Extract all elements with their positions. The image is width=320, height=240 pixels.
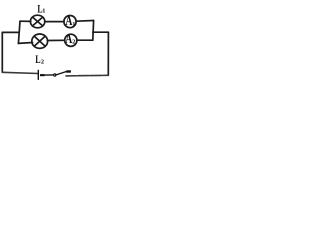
svg-text:2: 2: [72, 39, 75, 46]
svg-text:2: 2: [41, 59, 44, 66]
svg-text:1: 1: [42, 8, 45, 15]
svg-text:1: 1: [72, 21, 75, 28]
